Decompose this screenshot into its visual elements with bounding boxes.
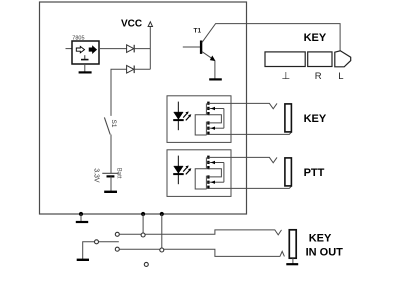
ground under KEY IN OUT jack: [292, 258, 294, 264]
svg-text:VCC: VCC: [121, 19, 142, 30]
svg-text:T1: T1: [194, 28, 202, 35]
wire U3 drain1 to KEY jack tip contact: [208, 103, 277, 108]
U4 body bracket: [223, 163, 225, 183]
regulator U2 7805 input stub wire: [66, 48, 73, 50]
transistor T1 collector wire to KEY plug tip: [202, 24, 340, 52]
wire D2 cathode to VCC net: [134, 68, 150, 70]
ground below enclosure: [80, 214, 82, 222]
wire upper bus to KEY IN OUT tip contact: [119, 230, 281, 235]
wire enclosure to upper bus: [142, 214, 144, 233]
node pin upper bus left: [115, 232, 119, 236]
wire U4 drain2 to PTT jack sleeve: [208, 186, 291, 188]
wire U4 drain1 to PTT jack tip contact: [208, 157, 277, 162]
svg-text:KEY: KEY: [304, 113, 327, 125]
transistor T1 emitter wire: [202, 52, 214, 60]
regulator output solid arrow: [89, 46, 96, 53]
wire 7805 output to D1: [99, 48, 127, 50]
PTT jack socket body: [285, 158, 292, 186]
transistor T1 emitter arrow: [210, 56, 215, 61]
diode D2: [127, 66, 134, 74]
mosfet gates loop U3: [195, 115, 206, 135]
regulator internal ground pin: [84, 55, 86, 59]
wire lower bus to KEY IN OUT ring contact: [119, 249, 284, 256]
node pin circle on upper bus: [141, 233, 145, 237]
LED light arrows U4: [183, 168, 187, 172]
U3 body bracket: [223, 109, 225, 129]
node pin lower bus left: [115, 247, 119, 251]
enclosure box: [40, 2, 247, 214]
ground under 7805: [84, 64, 86, 72]
svg-text:L: L: [338, 71, 343, 82]
ground bottom left: [77, 259, 89, 261]
U3 source bracket: [208, 115, 221, 123]
wire enclosure to lower bus: [161, 214, 163, 248]
transistor T1 emitter vertical wire: [214, 61, 216, 79]
ground under battery: [104, 191, 117, 193]
KEY IN OUT jack socket body: [289, 230, 296, 258]
junction dot enclosure bottom left: [141, 212, 145, 216]
transistor T1 base wire: [183, 46, 201, 48]
optocoupler U3 box: [167, 96, 231, 143]
KEY plug ring segment: [308, 52, 332, 67]
wire U3 drain2 to KEY jack sleeve: [208, 132, 291, 134]
wire switch to battery: [110, 135, 112, 174]
KEY plug sleeve segment: [265, 52, 305, 67]
U3 body diode arrows: [208, 108, 224, 110]
node pin circle on lower bus: [160, 248, 164, 252]
VCC net vertical wire: [149, 27, 151, 70]
battery Batt negative plate: [107, 175, 115, 177]
lone node pin: [144, 262, 148, 266]
LED of U3: [177, 102, 179, 131]
mosfet gates loop U4: [195, 169, 206, 189]
mosfet channel U3 lower: [207, 121, 209, 124]
mosfet channel U4 upper: [207, 156, 209, 159]
junction dot ground stub: [79, 212, 83, 216]
optocoupler U4 box: [167, 150, 231, 197]
wire middle stub to ground: [83, 242, 119, 259]
KEY jack socket body: [285, 104, 292, 132]
svg-text:⊥: ⊥: [282, 71, 291, 82]
mosfet channel U4 lower: [207, 175, 209, 178]
svg-text:PTT: PTT: [304, 167, 325, 179]
LED of U4: [177, 156, 179, 185]
svg-text:Batt: Batt: [116, 168, 122, 179]
LED light arrows U3: [183, 114, 187, 118]
wire D1 cathode to VCC net: [134, 48, 150, 50]
wire S1 branch to D2 anode: [111, 69, 127, 116]
junction dot enclosure bottom right: [160, 212, 164, 216]
svg-text:S1: S1: [110, 120, 117, 128]
KEY plug tip segment: [335, 51, 351, 67]
regulator input hollow arrow: [76, 46, 84, 52]
svg-text:7805: 7805: [72, 36, 84, 42]
svg-text:KEY: KEY: [309, 232, 332, 244]
mosfet channel U3 upper: [207, 102, 209, 105]
svg-text:R: R: [315, 71, 322, 82]
U4 source bracket: [208, 169, 221, 177]
wire battery to ground: [110, 176, 112, 191]
diode D1: [127, 45, 134, 53]
switch S1 blade: [104, 117, 110, 134]
svg-text:IN OUT: IN OUT: [306, 246, 344, 258]
U4 body diode arrows: [208, 162, 224, 164]
battery Batt positive plate: [102, 172, 118, 174]
node pin middle stub: [95, 240, 99, 244]
transistor T1 base bar: [200, 41, 202, 54]
svg-text:3.3V: 3.3V: [92, 168, 99, 183]
svg-text:KEY: KEY: [304, 32, 327, 44]
ground under T1: [209, 78, 222, 80]
regulator U2 7805 body: [72, 41, 99, 64]
VCC arrow symbol: [148, 22, 152, 27]
